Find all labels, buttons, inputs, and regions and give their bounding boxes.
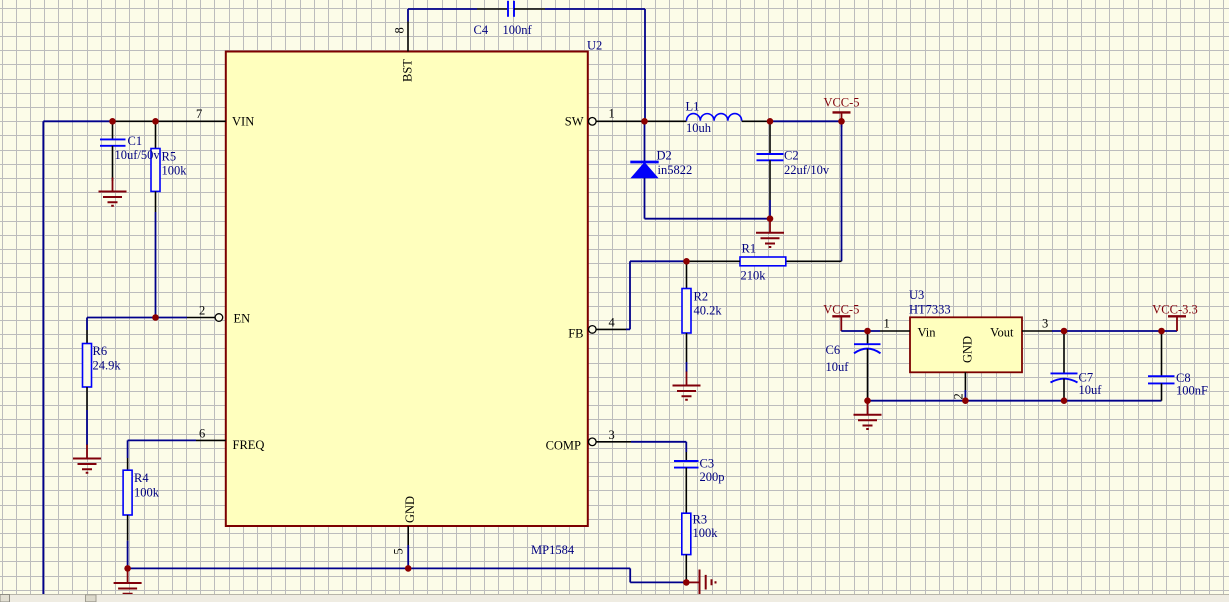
pin 2 EN — [187, 317, 215, 319]
resistor R5 — [151, 121, 160, 317]
svg-text:100nF: 100nF — [1176, 384, 1208, 398]
junction C6/pin1 — [864, 328, 871, 335]
svg-text:3: 3 — [1042, 317, 1048, 331]
svg-text:1: 1 — [884, 317, 890, 331]
junction FB/R1/R2 — [683, 258, 690, 265]
svg-text:VIN: VIN — [232, 115, 254, 129]
svg-text:COMP: COMP — [546, 439, 581, 453]
svg-text:100k: 100k — [693, 526, 719, 540]
capacitor C6 — [854, 331, 881, 401]
wire U3 ground bus — [868, 400, 1162, 402]
svg-text:C6: C6 — [826, 343, 841, 357]
svg-text:100k: 100k — [162, 164, 188, 178]
junction pin2/bus — [962, 397, 969, 404]
svg-text:10uh: 10uh — [686, 121, 712, 135]
svg-text:C2: C2 — [784, 149, 799, 163]
svg-text:Vin: Vin — [918, 326, 937, 340]
svg-text:R1: R1 — [742, 242, 757, 256]
svg-text:VCC-3.3: VCC-3.3 — [1152, 303, 1198, 317]
svg-text:L1: L1 — [686, 100, 700, 114]
svg-text:40.2k: 40.2k — [694, 304, 723, 318]
junction SW/VCC-5 — [838, 118, 845, 125]
capacitor C2 — [757, 121, 784, 218]
diode D2 — [630, 121, 658, 218]
pin 7 VIN — [113, 120, 226, 122]
junction GND pin/bus — [405, 565, 412, 572]
svg-text:SW: SW — [565, 115, 584, 129]
svg-text:R6: R6 — [93, 344, 108, 358]
svg-text:D2: D2 — [657, 149, 672, 163]
junction C8/Vout — [1158, 328, 1165, 335]
junction R3/ground — [683, 579, 690, 586]
wire BST net — [408, 9, 477, 22]
wire pin 2 to bus — [964, 390, 966, 401]
svg-text:200p: 200p — [700, 470, 725, 484]
resistor R4 — [123, 458, 132, 568]
junction EN/R5 — [152, 314, 159, 321]
junction C2/ground — [767, 215, 774, 222]
junction C7/Vout — [1061, 328, 1068, 335]
svg-text:EN: EN — [234, 312, 251, 326]
pin 1 Vin — [880, 330, 910, 332]
resistor R1 — [687, 257, 842, 266]
resistor R2 — [682, 261, 691, 372]
capacitor C3 — [674, 452, 699, 513]
pin 2 EN bubble — [215, 314, 223, 322]
svg-text:6: 6 — [199, 427, 205, 441]
wire ground bus — [128, 568, 687, 582]
pin 4 FB — [596, 328, 626, 330]
svg-text:C3: C3 — [700, 457, 715, 471]
wire FB net — [626, 261, 687, 329]
svg-text:R2: R2 — [694, 290, 709, 304]
pin 5 GND — [407, 526, 409, 545]
capacitor C7 — [1051, 331, 1078, 401]
pin 1 SW bubble — [589, 118, 597, 126]
svg-text:10uf/50v: 10uf/50v — [115, 148, 161, 162]
ground under R6 — [73, 445, 101, 473]
wire SW to C2 node — [742, 120, 770, 122]
svg-text:MP1584: MP1584 — [531, 543, 575, 557]
svg-text:210k: 210k — [741, 269, 767, 283]
pin 3 COMP bubble — [589, 438, 597, 446]
junction C6/bus — [864, 397, 871, 404]
power VCC-5 at SW output — [833, 112, 851, 127]
resistor R3 — [682, 513, 691, 582]
svg-text:C4: C4 — [474, 23, 489, 37]
wire BST to SW vertical — [545, 9, 645, 121]
inductor L1 — [687, 114, 742, 121]
junction VIN/R5 — [152, 118, 159, 125]
svg-text:22uf/10v: 22uf/10v — [784, 163, 830, 177]
ground under R2 — [673, 372, 701, 400]
junction C7/bus — [1061, 397, 1068, 404]
wire VIN net horizontal — [43, 120, 112, 122]
svg-text:in5822: in5822 — [658, 163, 693, 177]
junction VIN/C1 — [109, 118, 116, 125]
svg-text:4: 4 — [609, 316, 616, 330]
ground under C6 — [854, 401, 882, 429]
pin 1 SW — [596, 120, 687, 122]
svg-text:1: 1 — [609, 107, 615, 121]
svg-text:24.9k: 24.9k — [93, 359, 122, 373]
svg-text:GND: GND — [403, 496, 417, 523]
pin 8 BST — [407, 22, 409, 52]
pin 2 GND of U3 — [964, 372, 966, 390]
svg-text:FREQ: FREQ — [233, 438, 265, 452]
capacitor C1 — [100, 121, 126, 181]
svg-text:VCC-5: VCC-5 — [823, 96, 859, 110]
wire VCC-5 down to R1 — [841, 121, 843, 261]
power VCC-5 at U3 input — [832, 316, 850, 331]
wire Vout to VCC-3.3 — [1052, 330, 1177, 332]
wire COMP net — [631, 442, 686, 452]
ground under R4 — [114, 569, 142, 597]
junction R4/bus — [124, 565, 131, 572]
svg-text:R5: R5 — [162, 150, 177, 164]
svg-text:Vout: Vout — [990, 326, 1014, 340]
svg-text:R3: R3 — [693, 513, 708, 527]
svg-text:3: 3 — [609, 428, 615, 442]
junction SW/C2 — [767, 118, 774, 125]
svg-text:VCC-5: VCC-5 — [823, 303, 859, 317]
IC U2 MP1584 body — [226, 52, 588, 527]
pin 4 FB bubble — [589, 326, 597, 334]
svg-text:BST: BST — [401, 59, 415, 82]
junction SW/D2 — [641, 118, 648, 125]
capacitor C8 — [1148, 331, 1175, 401]
svg-text:HT7333: HT7333 — [909, 303, 951, 317]
svg-text:10uf: 10uf — [1079, 383, 1103, 397]
pin 3 COMP — [596, 441, 631, 443]
IC U3 HT7333 body — [910, 317, 1022, 372]
svg-text:FB: FB — [568, 327, 583, 341]
svg-text:GND: GND — [961, 336, 975, 363]
power VCC-3.3 — [1168, 316, 1186, 331]
wire FREQ net — [128, 440, 196, 458]
svg-text:2: 2 — [199, 304, 205, 318]
capacitor C4 — [477, 1, 545, 17]
svg-text:C1: C1 — [128, 134, 143, 148]
svg-text:100k: 100k — [134, 486, 160, 500]
ground under C1 — [99, 178, 127, 206]
svg-text:U2: U2 — [587, 39, 602, 53]
resistor R6 — [83, 318, 92, 446]
wire D2 anode to C2 bottom — [645, 218, 771, 220]
pin 3 Vout — [1022, 330, 1052, 332]
wire C2 node to VCC-5 — [770, 120, 842, 122]
wire EN net — [87, 317, 187, 319]
svg-text:R4: R4 — [134, 471, 149, 485]
svg-text:100nf: 100nf — [503, 23, 533, 37]
wire VIN net left vertical — [42, 121, 44, 595]
scrollbar strip at bottom — [0, 595, 1229, 602]
svg-text:7: 7 — [196, 107, 202, 121]
svg-text:10uf: 10uf — [826, 360, 850, 374]
pin 6 FREQ — [196, 439, 226, 441]
ground right-facing at R3 — [686, 570, 715, 596]
wire GND pin to bus — [407, 545, 409, 568]
svg-text:U3: U3 — [909, 288, 924, 302]
ground under C2 — [756, 219, 784, 247]
wire VCC-5 to U3 pin 1 — [841, 330, 880, 332]
svg-text:5: 5 — [392, 548, 406, 554]
svg-text:8: 8 — [393, 27, 407, 33]
